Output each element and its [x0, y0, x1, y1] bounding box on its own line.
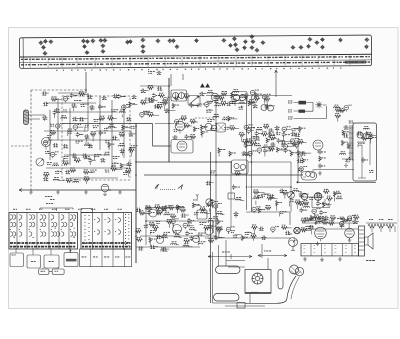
dashed alignment box front-end: [62, 96, 130, 180]
ground symbols on rail: [29, 190, 33, 194]
gnd below output tubes: [316, 242, 320, 246]
wire: vertical stub x171 from band: [170, 74, 172, 86]
changer base lines: [213, 303, 266, 306]
switch table section A outline: [9, 213, 78, 250]
output transformer: [359, 226, 365, 256]
coupling box mid: [232, 160, 249, 174]
wire: vertical x216: [215, 95, 217, 240]
transformer core lines left of box: [349, 125, 354, 160]
TR-SW bracket label: [46, 202, 48, 205]
CX3N label dark: [345, 61, 366, 64]
grounds below terminal box: [303, 257, 307, 261]
volume pot: [288, 192, 295, 199]
small tube left-bottom: [101, 184, 109, 195]
LN1 label: [74, 99, 76, 102]
wire: horizontal y212: [246, 212, 290, 225]
component field: detector section upper: [239, 124, 308, 157]
MOTOR label: [66, 259, 77, 262]
preamp tube 5: [157, 237, 164, 244]
IF transformer T1: [171, 90, 187, 101]
idler discs: [290, 265, 304, 276]
component field: mid coupling: [140, 85, 168, 118]
potentiometer left: [36, 158, 44, 166]
junction dots: [135, 161, 137, 163]
dial lamp star: [315, 101, 322, 108]
wire: long horizontal y162: [136, 161, 232, 163]
detector tube: [313, 140, 323, 153]
component field: mid components row: [205, 89, 275, 112]
switch table coil symbols: [10, 212, 121, 238]
small box on x231: [228, 193, 235, 199]
section B columns: [92, 213, 94, 250]
wire: dashed horizontal y146 left: [11, 145, 31, 147]
stub marks below band left-mid: [148, 70, 149, 73]
component field: mid column parts: [206, 148, 245, 238]
dotted last column: [125, 214, 127, 246]
changer small box: [237, 303, 245, 309]
wire: vertical x231: [230, 161, 232, 228]
wire: horizontal y123.5: [62, 124, 171, 147]
dark circle part above changer: [294, 227, 300, 233]
wire: top rail y86: [140, 85, 170, 87]
roller bar capsule: [278, 270, 283, 290]
tube V3: [171, 140, 193, 154]
changer arm capsule 1: [216, 266, 241, 274]
vertical coil mid column: [212, 221, 213, 233]
IF transformer T2: [232, 92, 247, 104]
component field: right small parts: [333, 105, 351, 122]
wire: vertical x210 chassis left: [210, 152, 212, 303]
component field: parts left of osc box: [340, 121, 354, 163]
TK-56A label: [366, 259, 368, 262]
handwritten mark: [155, 185, 159, 190]
oscillator box top right: [353, 123, 377, 181]
fuse rect 2: [299, 110, 306, 113]
section A columns: [16, 213, 18, 250]
tube V2b: [175, 121, 185, 133]
wire: dashed y118: [195, 117, 216, 119]
ground rail y190: [19, 189, 136, 191]
component field: parts above changer: [231, 225, 312, 241]
pot arrow below box: [342, 157, 351, 167]
table text row 1: [21, 57, 370, 60]
changer link stubs: [213, 240, 263, 303]
dotted first column section B: [84, 215, 86, 246]
motor symbol flower: [289, 238, 298, 251]
dial lamp labels: [288, 100, 290, 103]
idler arm curve: [245, 276, 296, 303]
twin circles row2: [205, 123, 217, 130]
tuning gang box: [188, 96, 200, 106]
dial ticks below band: [56, 68, 342, 70]
wire: horizontal y169.4: [314, 168, 354, 170]
motor base dark plate: [245, 292, 271, 294]
table right extension: [80, 249, 132, 267]
crystal box with X: [217, 123, 226, 132]
small y mark: [196, 194, 198, 199]
L.A.B text: [45, 195, 47, 198]
table footer text band B: [82, 242, 131, 244]
wire: horizontal y187: [248, 186, 291, 188]
fuse rect 1: [299, 101, 307, 105]
bottom small row: [148, 207, 185, 209]
terminal box marks: [304, 246, 306, 253]
wire: top right rail y96: [206, 95, 292, 97]
dimension arrow 1: [208, 254, 252, 259]
switch unit boxes: [10, 253, 78, 268]
feed wires into motor box: [226, 258, 268, 270]
preamp wires: [136, 205, 216, 247]
component field: left column parts right section: [297, 151, 311, 173]
two small boxes below: [39, 268, 64, 275]
box interior marks: [12, 254, 14, 257]
wire: dashed horizontal y90: [31, 89, 86, 91]
wire: vertical stub x183 from band: [182, 74, 184, 80]
rectifier circles: [300, 193, 332, 208]
lamp wiring: [294, 103, 327, 119]
wire: dashed vertical x31: [30, 90, 32, 190]
tube V1a circle: [42, 138, 51, 147]
component field: mid extra parts: [150, 92, 207, 113]
tube V2: [211, 93, 219, 103]
preamp box: [197, 210, 207, 219]
wire: horizontal y93: [58, 92, 86, 94]
lower terminal box: [301, 244, 358, 256]
preamp tube 3: [205, 227, 213, 235]
extension cell text: [82, 256, 84, 259]
dual diode loop: [301, 169, 317, 180]
table text row 2: [21, 62, 370, 65]
dimension arrow 2: [258, 254, 287, 256]
twin circles right of mid row: [261, 105, 274, 112]
stubs table to boxes: [16, 248, 70, 255]
preamp tube 2: [173, 225, 182, 234]
wire: vertical bus x169: [168, 78, 170, 162]
tube symbols in band: [38, 33, 369, 55]
detector cap stack: [318, 149, 322, 154]
wire: vertical x298 right column: [297, 145, 299, 182]
component field: front-end section: [42, 91, 138, 184]
output tube 2: [345, 228, 355, 238]
component field: power section: [298, 189, 342, 215]
wire: vertical bus x136: [135, 123, 137, 263]
triangle glyph: [200, 83, 210, 87]
output rail wires: [302, 223, 397, 229]
tube table band outline: [19, 35, 371, 68]
changer arm capsule 2: [214, 294, 240, 302]
table column header marks: [13, 208, 15, 211]
component field: second tube row parts: [173, 114, 240, 139]
pot mid column: [206, 199, 212, 205]
pickup connector bar: [24, 110, 46, 125]
wire: vertical x251.5: [251, 96, 253, 212]
wire: long horizontal y182.3: [297, 181, 376, 183]
resistor chain right: [368, 224, 395, 232]
component field: row above preamp: [146, 205, 180, 215]
output tube 1: [315, 227, 327, 241]
motor pulley: [252, 273, 263, 284]
table cell separators: [30, 54, 350, 68]
motor board box: [245, 270, 271, 294]
osc box interior wires: [358, 140, 370, 178]
wire: vertical x291: [290, 162, 292, 212]
component field: output row parts: [301, 215, 359, 235]
front-end wire grid: [44, 93, 132, 178]
table footer text band A: [10, 242, 76, 244]
wire: horizontal y162 right segment: [248, 161, 291, 163]
preamp tube 4: [193, 236, 200, 243]
wire: vertical stub x86 from band: [85, 72, 87, 93]
component field: oscillator box parts: [357, 126, 377, 147]
component field: audio preamp section: [135, 203, 224, 252]
switch table section B outline: [81, 213, 132, 250]
wire: long horizontal y175: [144, 174, 303, 176]
wire: vertical x246.5: [246, 96, 248, 210]
speaker: [365, 233, 374, 249]
wire: dial pointer vertical x276: [275, 70, 278, 97]
wire: horizontal y238: [205, 237, 291, 239]
preamp tube 1: [149, 209, 157, 217]
component field: AVC section lower: [252, 188, 302, 216]
